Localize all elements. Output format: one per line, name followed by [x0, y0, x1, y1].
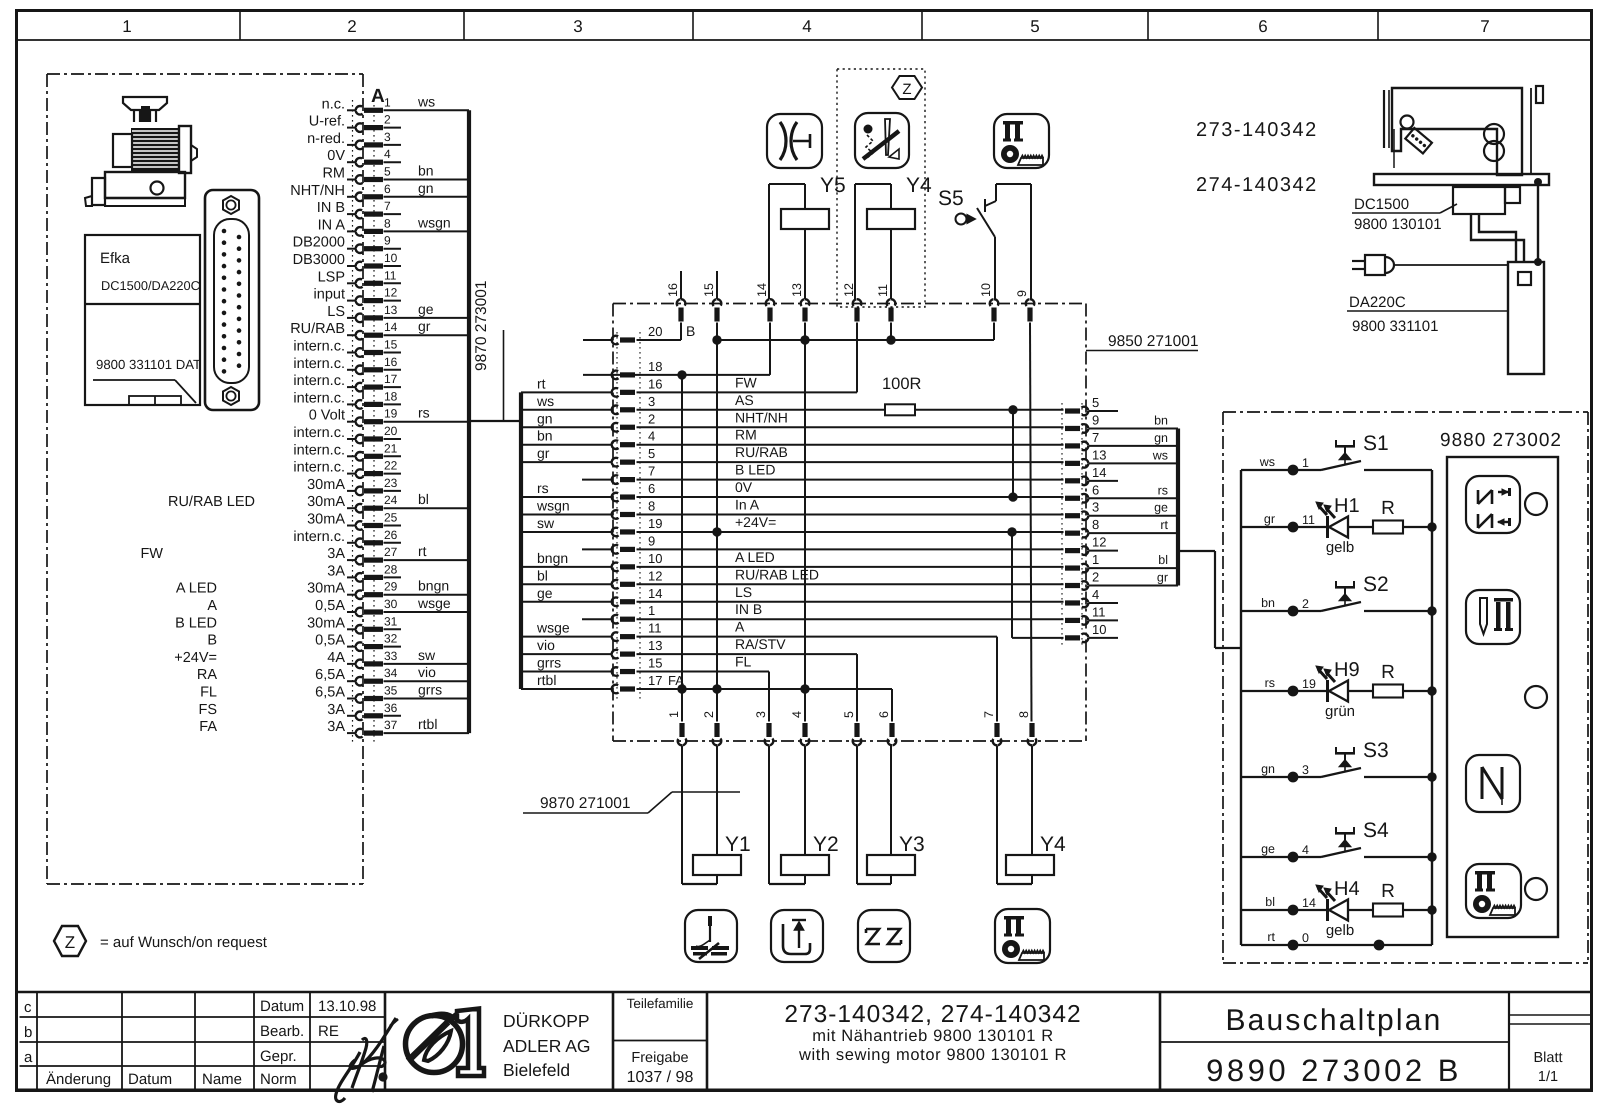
svg-text:Datum: Datum — [128, 1071, 172, 1088]
svg-text:33: 33 — [384, 649, 398, 663]
svg-text:wsge: wsge — [536, 620, 570, 636]
svg-text:15: 15 — [702, 283, 716, 297]
svg-text:IN B: IN B — [317, 200, 345, 216]
svg-text:Bielefeld: Bielefeld — [503, 1060, 570, 1080]
svg-text:mit Nähantrieb 9800 130101 R: mit Nähantrieb 9800 130101 R — [812, 1027, 1054, 1045]
svg-text:S4: S4 — [1363, 819, 1389, 842]
svg-text:gr: gr — [537, 445, 550, 461]
svg-text:gn: gn — [1154, 431, 1168, 445]
svg-text:273-140342, 274-140342: 273-140342, 274-140342 — [784, 1001, 1081, 1028]
svg-text:13: 13 — [648, 638, 662, 653]
svg-text:grrs: grrs — [418, 682, 442, 698]
svg-text:rt: rt — [1267, 930, 1275, 944]
svg-text:intern.c.: intern.c. — [293, 425, 345, 441]
svg-text:13.10.98: 13.10.98 — [318, 998, 376, 1015]
svg-text:0,5A: 0,5A — [315, 598, 345, 614]
svg-text:20: 20 — [384, 424, 398, 438]
svg-text:FW: FW — [735, 374, 758, 390]
svg-text:Name: Name — [202, 1071, 242, 1088]
svg-text:7: 7 — [648, 464, 655, 479]
svg-text:Y1: Y1 — [725, 833, 751, 856]
svg-text:bl: bl — [537, 567, 548, 583]
svg-text:30mA: 30mA — [307, 494, 345, 510]
svg-text:n-red.: n-red. — [307, 131, 345, 147]
svg-text:18: 18 — [384, 389, 398, 403]
svg-text:rt: rt — [418, 543, 427, 559]
svg-text:a: a — [24, 1049, 33, 1066]
svg-text:intern.c.: intern.c. — [293, 356, 345, 372]
svg-text:9880 273002: 9880 273002 — [1440, 430, 1562, 451]
svg-text:S3: S3 — [1363, 739, 1389, 762]
svg-text:DÜRKOPP: DÜRKOPP — [503, 1011, 590, 1031]
svg-text:15: 15 — [648, 656, 662, 671]
svg-text:1: 1 — [384, 95, 391, 109]
svg-text:Datum: Datum — [260, 998, 304, 1015]
svg-text:30mA: 30mA — [307, 512, 345, 528]
svg-text:6,5A: 6,5A — [315, 685, 345, 701]
svg-text:12: 12 — [648, 568, 662, 583]
svg-text:Teilefamilie: Teilefamilie — [627, 996, 694, 1011]
svg-text:rtbl: rtbl — [537, 672, 556, 688]
svg-text:Y3: Y3 — [899, 833, 925, 856]
svg-text:2: 2 — [648, 411, 655, 426]
svg-text:15: 15 — [384, 338, 398, 352]
svg-text:A LED: A LED — [176, 581, 217, 597]
svg-text:gelb: gelb — [1326, 539, 1354, 556]
svg-text:12: 12 — [1092, 535, 1106, 550]
svg-text:gn: gn — [1261, 762, 1275, 776]
svg-text:19: 19 — [648, 516, 662, 531]
svg-text:gr: gr — [1264, 512, 1275, 526]
svg-text:RU/RAB LED: RU/RAB LED — [735, 566, 819, 582]
svg-text:10: 10 — [384, 251, 398, 265]
svg-text:Y4: Y4 — [1040, 833, 1066, 856]
svg-text:13: 13 — [384, 303, 398, 317]
svg-text:4: 4 — [384, 147, 391, 161]
svg-text:R: R — [1381, 881, 1395, 902]
svg-text:14: 14 — [1092, 465, 1106, 480]
svg-text:9870 271001: 9870 271001 — [540, 795, 631, 812]
svg-text:8: 8 — [1092, 517, 1099, 532]
svg-text:7: 7 — [982, 711, 996, 718]
svg-text:ge: ge — [418, 301, 434, 317]
svg-text:13: 13 — [790, 283, 804, 297]
svg-text:3A: 3A — [327, 546, 345, 562]
svg-text:0 Volt: 0 Volt — [309, 408, 345, 424]
svg-text:9800 331101: 9800 331101 — [1352, 318, 1438, 335]
svg-text:11: 11 — [384, 268, 397, 282]
svg-text:1037 / 98: 1037 / 98 — [627, 1069, 694, 1086]
svg-text:FL: FL — [200, 685, 217, 701]
svg-text:bngn: bngn — [418, 578, 449, 594]
svg-text:35: 35 — [384, 684, 398, 698]
svg-text:25: 25 — [384, 511, 398, 525]
svg-text:S2: S2 — [1363, 573, 1389, 596]
svg-text:B LED: B LED — [735, 462, 775, 478]
svg-text:16: 16 — [384, 355, 398, 369]
svg-text:A LED: A LED — [735, 549, 775, 565]
svg-text:19: 19 — [1302, 677, 1316, 691]
svg-text:gn: gn — [537, 410, 553, 426]
svg-text:LS: LS — [327, 304, 345, 320]
svg-text:11: 11 — [648, 621, 662, 636]
svg-text:ADLER AG: ADLER AG — [503, 1036, 591, 1056]
svg-text:intern.c.: intern.c. — [293, 339, 345, 355]
svg-text:7: 7 — [384, 199, 391, 213]
svg-text:LSP: LSP — [318, 269, 345, 285]
svg-text:RU/RAB LED: RU/RAB LED — [168, 494, 255, 510]
svg-text:3A: 3A — [327, 563, 345, 579]
svg-text:19: 19 — [384, 407, 398, 421]
svg-text:9: 9 — [384, 234, 391, 248]
svg-text:2: 2 — [1302, 597, 1309, 611]
svg-text:H1: H1 — [1334, 495, 1360, 517]
svg-text:bn: bn — [1261, 596, 1275, 610]
svg-text:DC1500: DC1500 — [1354, 196, 1409, 213]
svg-text:6: 6 — [648, 481, 655, 496]
svg-text:gr: gr — [1157, 571, 1168, 585]
svg-text:4: 4 — [802, 17, 811, 36]
svg-text:Y5: Y5 — [820, 174, 846, 197]
svg-text:RU/RAB: RU/RAB — [290, 321, 345, 337]
svg-text:9: 9 — [1015, 290, 1029, 297]
svg-text:A: A — [371, 86, 385, 107]
svg-text:Änderung: Änderung — [46, 1071, 111, 1088]
svg-text:27: 27 — [384, 545, 398, 559]
svg-text:rs: rs — [537, 480, 549, 496]
svg-text:273-140342: 273-140342 — [1196, 119, 1318, 141]
svg-text:9: 9 — [1092, 412, 1099, 427]
svg-text:rt: rt — [537, 375, 546, 391]
svg-text:Z: Z — [65, 933, 75, 952]
svg-text:rtbl: rtbl — [418, 716, 437, 732]
svg-text:0V: 0V — [735, 479, 753, 495]
svg-text:5: 5 — [648, 446, 655, 461]
svg-text:ge: ge — [537, 585, 553, 601]
svg-text:FW: FW — [140, 546, 163, 562]
svg-text:14: 14 — [648, 586, 662, 601]
svg-text:5: 5 — [1030, 17, 1039, 36]
svg-text:FS: FS — [198, 702, 217, 718]
svg-text:4A: 4A — [327, 650, 345, 666]
svg-text:7: 7 — [1480, 17, 1489, 36]
svg-text:37: 37 — [384, 718, 398, 732]
svg-text:R: R — [1381, 498, 1395, 519]
svg-text:3: 3 — [573, 17, 582, 36]
svg-text:vio: vio — [418, 664, 436, 680]
svg-text:2: 2 — [347, 17, 356, 36]
svg-text:Norm: Norm — [260, 1071, 297, 1088]
svg-text:bn: bn — [418, 163, 434, 179]
svg-text:Freigabe: Freigabe — [631, 1050, 688, 1066]
svg-text:ws: ws — [536, 393, 554, 409]
svg-text:8: 8 — [648, 499, 655, 514]
svg-text:wsge: wsge — [417, 595, 451, 611]
svg-text:B LED: B LED — [175, 615, 217, 631]
svg-text:20: 20 — [648, 324, 662, 339]
svg-text:0,5A: 0,5A — [315, 633, 345, 649]
svg-text:A: A — [207, 598, 217, 614]
svg-text:11: 11 — [1302, 513, 1315, 527]
svg-text:2: 2 — [384, 113, 391, 127]
svg-text:14: 14 — [1302, 896, 1316, 910]
svg-text:LS: LS — [735, 584, 752, 600]
svg-text:Bauschaltplan: Bauschaltplan — [1225, 1004, 1442, 1037]
svg-text:3: 3 — [1302, 763, 1309, 777]
svg-text:18: 18 — [648, 359, 662, 374]
svg-text:14: 14 — [755, 283, 769, 297]
svg-text:NHT/NH: NHT/NH — [735, 409, 788, 425]
svg-text:IN A: IN A — [318, 217, 346, 233]
svg-text:RU/RAB: RU/RAB — [735, 444, 788, 460]
svg-text:6: 6 — [1092, 482, 1099, 497]
svg-text:13: 13 — [1092, 447, 1106, 462]
svg-text:bl: bl — [1158, 553, 1168, 567]
svg-text:1: 1 — [1092, 552, 1099, 567]
svg-text:DB3000: DB3000 — [293, 252, 345, 268]
svg-text:grün: grün — [1325, 703, 1355, 720]
svg-text:9: 9 — [648, 533, 655, 548]
svg-text:21: 21 — [384, 441, 398, 455]
svg-text:9890 273002 B: 9890 273002 B — [1206, 1053, 1462, 1088]
svg-text:= auf Wunsch/on request: = auf Wunsch/on request — [100, 934, 268, 951]
svg-text:3: 3 — [648, 394, 655, 409]
svg-text:Blatt: Blatt — [1533, 1050, 1562, 1066]
svg-text:4: 4 — [648, 429, 655, 444]
svg-text:RA: RA — [197, 667, 217, 683]
svg-text:AS: AS — [735, 392, 754, 408]
svg-text:+24V=: +24V= — [735, 514, 776, 530]
svg-text:intern.c.: intern.c. — [293, 460, 345, 476]
svg-text:11: 11 — [876, 284, 890, 297]
svg-text:4: 4 — [1092, 587, 1099, 602]
svg-text:intern.c.: intern.c. — [293, 373, 345, 389]
svg-text:DB2000: DB2000 — [293, 235, 345, 251]
svg-text:22: 22 — [384, 459, 398, 473]
svg-text:2: 2 — [1092, 570, 1099, 585]
svg-text:11: 11 — [1092, 604, 1106, 619]
svg-text:1: 1 — [1302, 456, 1309, 470]
svg-text:B: B — [207, 633, 217, 649]
svg-text:gn: gn — [418, 180, 434, 196]
svg-text:b: b — [24, 1024, 32, 1041]
svg-text:30mA: 30mA — [307, 615, 345, 631]
svg-text:rs: rs — [418, 405, 430, 421]
svg-text:intern.c.: intern.c. — [293, 390, 345, 406]
svg-text:31: 31 — [384, 614, 398, 628]
svg-text:FA: FA — [199, 719, 217, 735]
svg-text:FA: FA — [668, 673, 684, 688]
svg-text:1: 1 — [667, 711, 681, 718]
svg-text:36: 36 — [384, 701, 398, 715]
svg-text:9800 331101 DAT: 9800 331101 DAT — [96, 357, 201, 372]
svg-text:29: 29 — [384, 580, 398, 594]
svg-text:+24V=: +24V= — [174, 650, 217, 666]
svg-text:26: 26 — [384, 528, 398, 542]
svg-text:23: 23 — [384, 476, 398, 490]
svg-text:A: A — [735, 619, 745, 635]
svg-text:10: 10 — [1092, 622, 1106, 637]
svg-text:RM: RM — [735, 427, 757, 443]
svg-text:0V: 0V — [327, 148, 345, 164]
svg-text:intern.c.: intern.c. — [293, 442, 345, 458]
svg-text:bn: bn — [537, 428, 553, 444]
svg-text:IN B: IN B — [735, 601, 762, 617]
svg-text:17: 17 — [384, 372, 398, 386]
svg-text:sw: sw — [418, 647, 436, 663]
svg-text:1: 1 — [122, 17, 131, 36]
svg-text:vio: vio — [537, 637, 555, 653]
svg-text:gelb: gelb — [1326, 922, 1354, 939]
svg-text:100R: 100R — [882, 375, 922, 393]
svg-text:B: B — [686, 323, 695, 339]
svg-text:Y2: Y2 — [813, 833, 839, 856]
svg-text:3A: 3A — [327, 702, 345, 718]
svg-text:Bearb.: Bearb. — [260, 1023, 304, 1040]
svg-text:6,5A: 6,5A — [315, 667, 345, 683]
svg-text:3A: 3A — [327, 719, 345, 735]
svg-text:10: 10 — [979, 283, 993, 297]
svg-text:bl: bl — [1265, 895, 1275, 909]
svg-text:with sewing motor 9800 130101: with sewing motor 9800 130101 R — [798, 1046, 1067, 1064]
svg-text:30mA: 30mA — [307, 581, 345, 597]
svg-text:6: 6 — [1258, 17, 1267, 36]
svg-text:Efka: Efka — [100, 250, 131, 267]
svg-text:0: 0 — [1302, 931, 1309, 945]
svg-text:2: 2 — [702, 711, 716, 718]
svg-text:28: 28 — [384, 562, 398, 576]
svg-text:7: 7 — [1092, 430, 1099, 445]
svg-text:Z: Z — [902, 81, 911, 98]
svg-text:3: 3 — [754, 711, 768, 718]
svg-text:9850 271001: 9850 271001 — [1108, 333, 1199, 350]
svg-text:ge: ge — [1154, 501, 1168, 515]
svg-text:ws: ws — [1152, 448, 1168, 462]
svg-text:c: c — [24, 999, 32, 1016]
svg-text:gr: gr — [418, 318, 431, 334]
svg-text:24: 24 — [384, 493, 398, 507]
svg-text:30: 30 — [384, 597, 398, 611]
svg-text:FL: FL — [735, 654, 752, 670]
svg-text:16: 16 — [648, 376, 662, 391]
svg-text:DC1500/DA220C: DC1500/DA220C — [101, 278, 200, 293]
svg-text:ws: ws — [417, 93, 435, 109]
svg-text:rt: rt — [1160, 518, 1168, 532]
svg-text:input: input — [314, 287, 345, 303]
svg-text:32: 32 — [384, 632, 398, 646]
svg-text:RA/STV: RA/STV — [735, 636, 786, 652]
svg-text:ge: ge — [1261, 842, 1275, 856]
svg-text:ws: ws — [1259, 455, 1275, 469]
svg-text:H9: H9 — [1334, 659, 1360, 681]
svg-text:5: 5 — [1092, 395, 1099, 410]
svg-text:34: 34 — [384, 666, 398, 680]
svg-text:rs: rs — [1265, 676, 1275, 690]
svg-text:6: 6 — [877, 711, 891, 718]
svg-text:wsgn: wsgn — [536, 498, 570, 514]
svg-text:Y4: Y4 — [906, 174, 932, 197]
svg-text:S5: S5 — [938, 187, 964, 210]
svg-text:8: 8 — [1017, 711, 1031, 718]
svg-text:wsgn: wsgn — [417, 214, 451, 230]
svg-text:9870 273001: 9870 273001 — [473, 280, 490, 371]
svg-text:bn: bn — [1154, 413, 1168, 427]
svg-text:grrs: grrs — [537, 655, 561, 671]
svg-text:16: 16 — [666, 283, 680, 297]
svg-text:S1: S1 — [1363, 432, 1389, 455]
svg-text:3: 3 — [1092, 500, 1099, 515]
svg-text:6: 6 — [384, 182, 391, 196]
svg-text:rs: rs — [1158, 483, 1168, 497]
svg-text:n.c.: n.c. — [322, 96, 345, 112]
svg-text:17: 17 — [648, 673, 662, 688]
svg-text:In A: In A — [735, 497, 760, 513]
svg-text:bl: bl — [418, 491, 429, 507]
svg-text:10: 10 — [648, 551, 662, 566]
svg-text:RM: RM — [322, 166, 345, 182]
svg-text:sw: sw — [537, 515, 555, 531]
svg-text:12: 12 — [384, 286, 398, 300]
svg-text:1/1: 1/1 — [1538, 1069, 1558, 1085]
svg-text:14: 14 — [384, 320, 398, 334]
svg-text:8: 8 — [384, 216, 391, 230]
svg-text:274-140342: 274-140342 — [1196, 174, 1318, 196]
svg-text:intern.c.: intern.c. — [293, 529, 345, 545]
svg-text:9800 130101: 9800 130101 — [1354, 216, 1442, 233]
svg-text:12: 12 — [842, 283, 856, 297]
svg-text:NHT/NH: NHT/NH — [290, 183, 345, 199]
svg-text:5: 5 — [384, 165, 391, 179]
svg-text:3: 3 — [384, 130, 391, 144]
svg-text:30mA: 30mA — [307, 477, 345, 493]
svg-text:1: 1 — [648, 603, 655, 618]
svg-text:4: 4 — [790, 711, 804, 718]
svg-text:R: R — [1381, 662, 1395, 683]
svg-text:RE: RE — [318, 1023, 339, 1040]
svg-text:Gepr.: Gepr. — [260, 1048, 297, 1065]
svg-text:5: 5 — [842, 711, 856, 718]
svg-text:H4: H4 — [1334, 878, 1360, 900]
svg-text:DA220C: DA220C — [1349, 294, 1406, 311]
svg-text:U-ref.: U-ref. — [309, 114, 345, 130]
svg-text:4: 4 — [1302, 843, 1309, 857]
svg-text:bngn: bngn — [537, 550, 568, 566]
